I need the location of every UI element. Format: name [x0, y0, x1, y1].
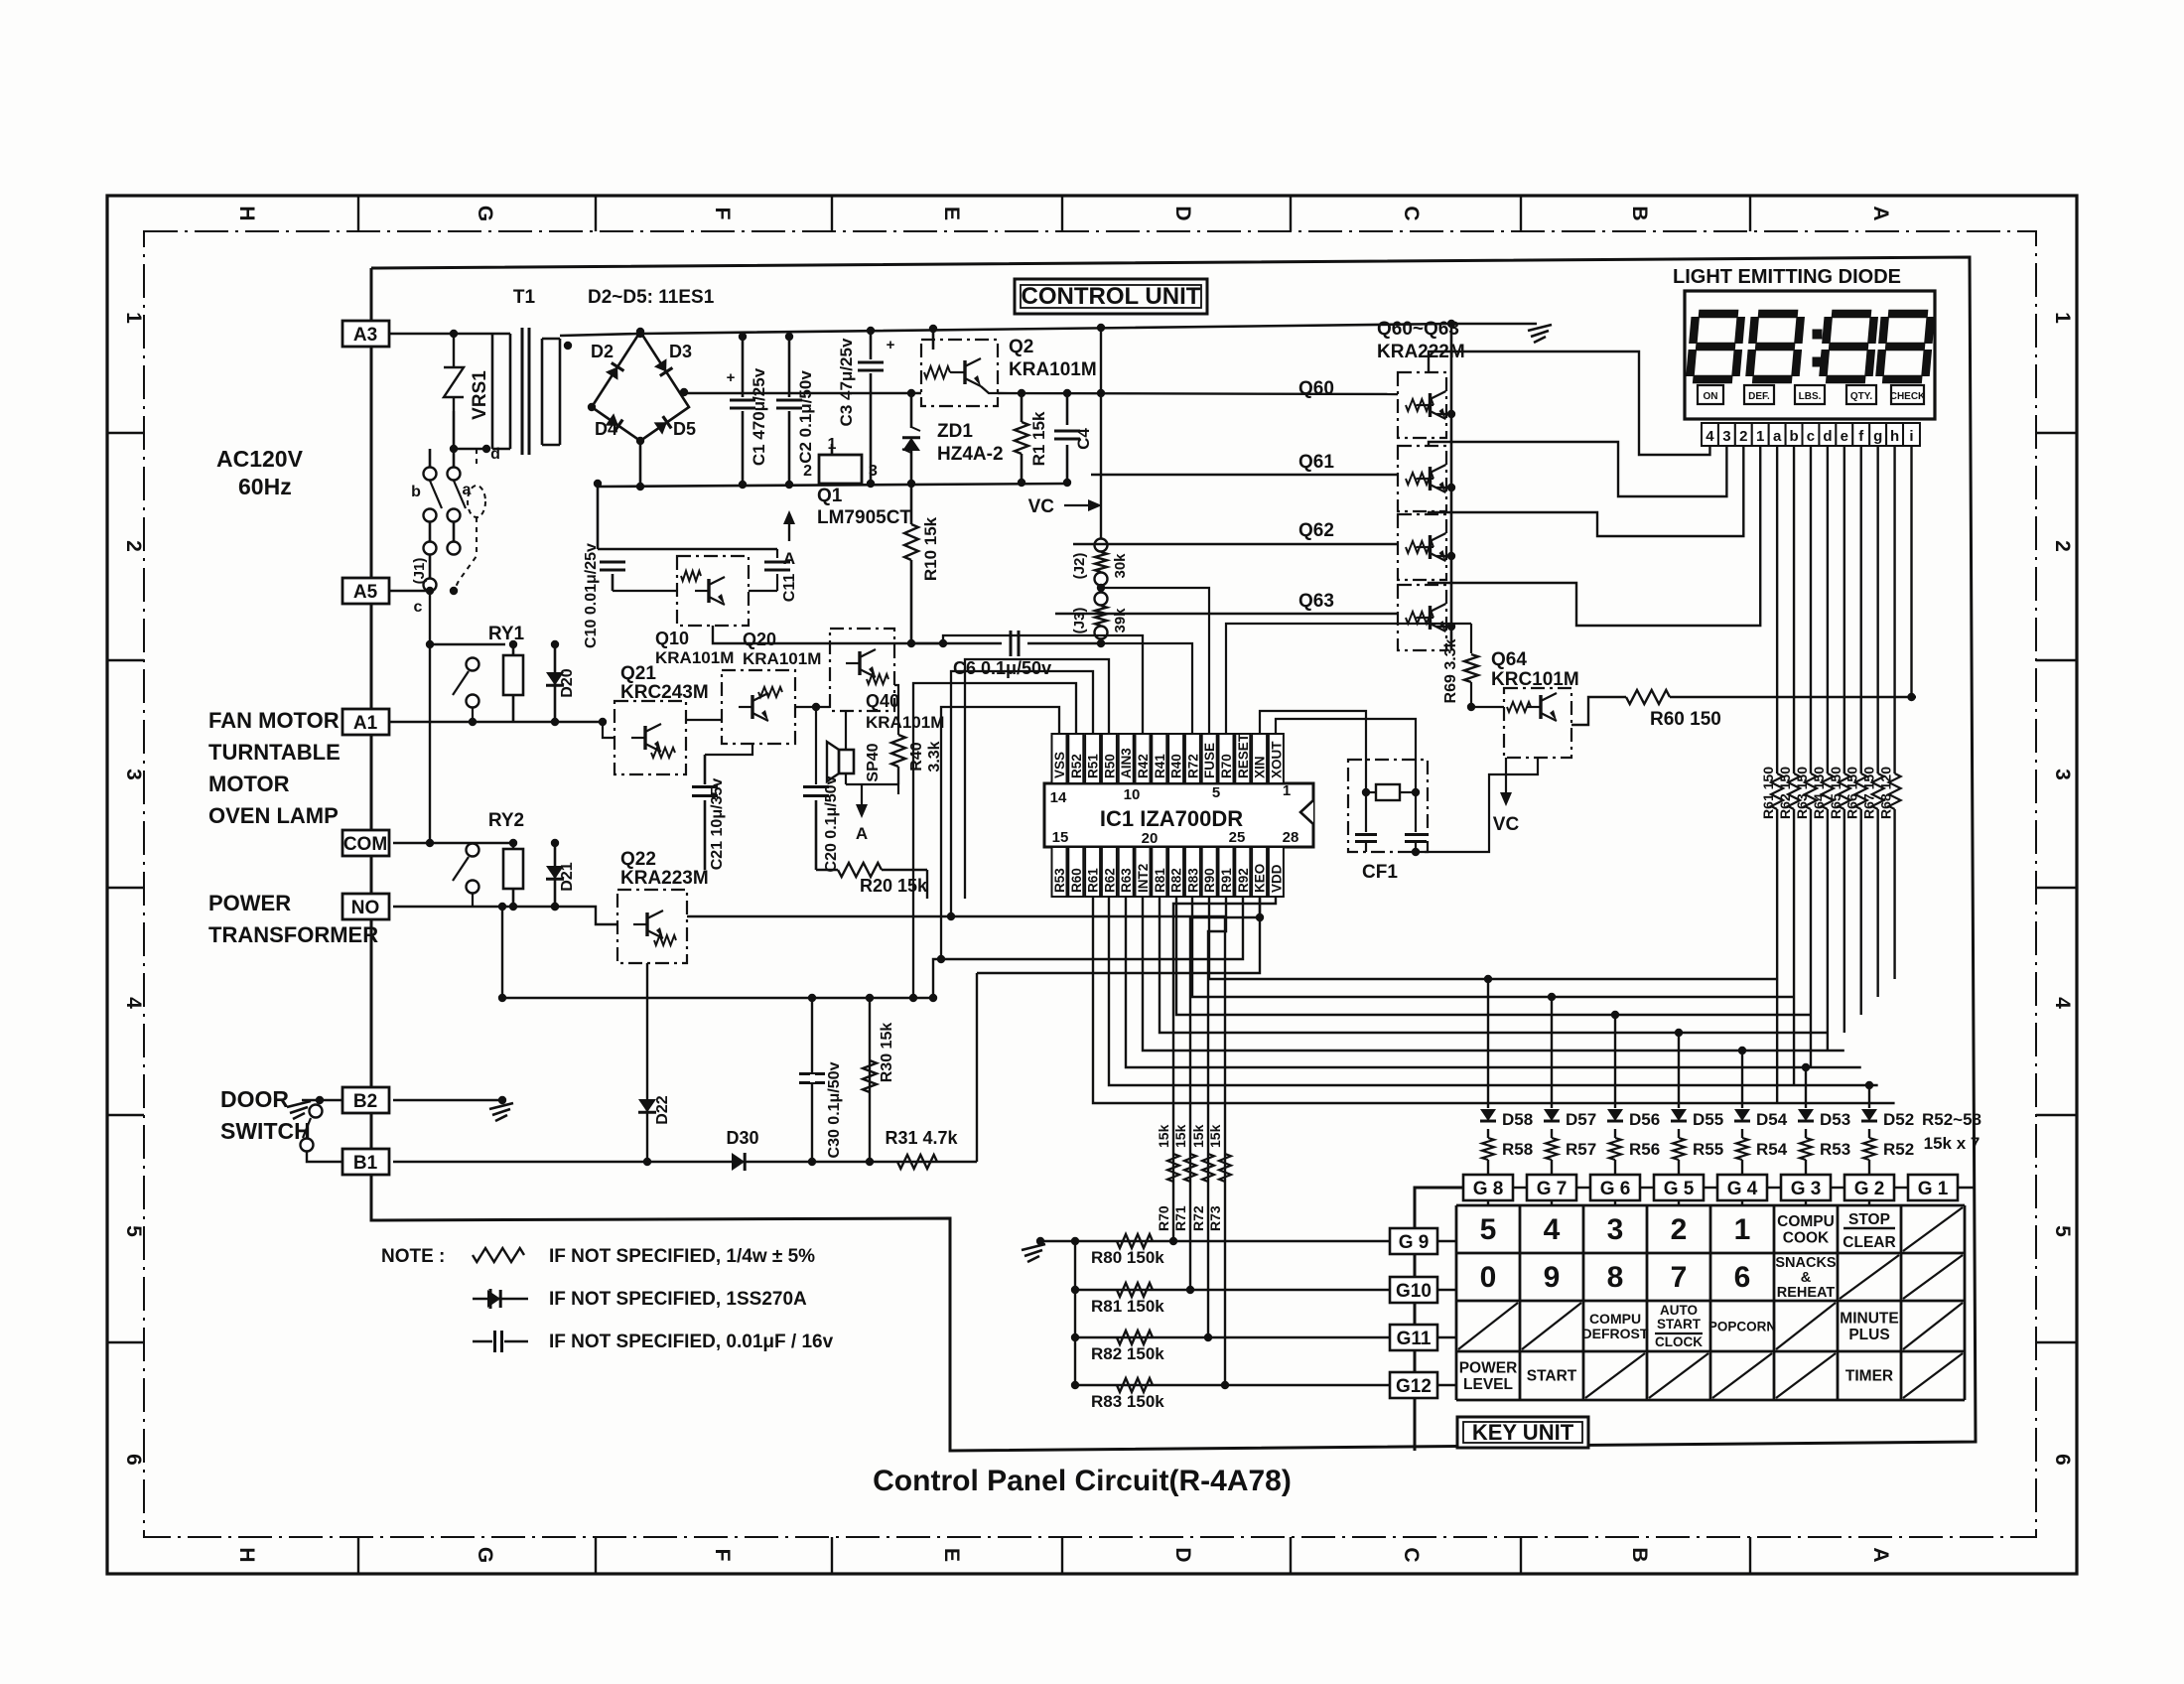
svg-text:15k x 7: 15k x 7: [1924, 1134, 1980, 1153]
svg-text:28: 28: [1283, 829, 1299, 846]
svg-text:c: c: [414, 599, 423, 616]
svg-text:4: 4: [122, 997, 145, 1009]
svg-text:B: B: [1628, 1547, 1651, 1562]
svg-text:G 4: G 4: [1727, 1179, 1758, 1199]
svg-text:R52~58: R52~58: [1922, 1110, 1981, 1129]
svg-text:KEY UNIT: KEY UNIT: [1472, 1420, 1574, 1445]
svg-text:R63 150: R63 150: [1794, 767, 1810, 819]
svg-text:D: D: [1171, 206, 1194, 220]
svg-text:CHECK: CHECK: [1890, 391, 1926, 402]
svg-text:LM7905CT: LM7905CT: [817, 507, 911, 528]
svg-text:25: 25: [1229, 829, 1246, 846]
svg-text:D55: D55: [1693, 1110, 1723, 1129]
svg-text:R70: R70: [1219, 754, 1234, 778]
svg-text:TIMER: TIMER: [1845, 1368, 1893, 1385]
svg-text:D56: D56: [1629, 1110, 1660, 1129]
svg-text:R80 150k: R80 150k: [1091, 1248, 1164, 1267]
svg-text:D5: D5: [673, 419, 696, 439]
svg-text:R40: R40: [908, 742, 925, 771]
svg-text:C: C: [1400, 1547, 1423, 1562]
svg-text:R92: R92: [1236, 868, 1251, 893]
svg-text:R10 15k: R10 15k: [921, 516, 940, 581]
svg-text:G: G: [474, 1547, 496, 1563]
svg-text:A: A: [856, 824, 868, 843]
svg-text:B: B: [1628, 206, 1651, 220]
svg-text:NOTE :: NOTE :: [381, 1246, 445, 1267]
svg-text:R83 150k: R83 150k: [1091, 1392, 1164, 1411]
svg-text:R60 150: R60 150: [1650, 709, 1721, 730]
svg-text:A: A: [783, 549, 795, 568]
svg-text:KRA101M: KRA101M: [743, 649, 821, 668]
svg-text:h: h: [1890, 428, 1899, 445]
svg-text:(J1): (J1): [411, 558, 428, 585]
svg-text:KEO: KEO: [1253, 864, 1268, 893]
svg-text:Q22: Q22: [620, 849, 656, 870]
svg-text:KRA101M: KRA101M: [655, 648, 734, 667]
svg-text:7: 7: [1671, 1261, 1688, 1294]
svg-text:D2: D2: [591, 342, 614, 361]
svg-text:C6 0.1μ/50v: C6 0.1μ/50v: [953, 658, 1051, 678]
svg-text:b: b: [1789, 428, 1798, 445]
svg-text:B1: B1: [353, 1153, 378, 1174]
svg-text:30k: 30k: [1112, 553, 1129, 579]
svg-text:(J2): (J2): [1071, 553, 1088, 580]
svg-text:C4: C4: [1074, 428, 1093, 450]
svg-text:6: 6: [1734, 1261, 1751, 1294]
svg-text:d: d: [490, 446, 500, 463]
svg-text:g: g: [1873, 428, 1882, 445]
svg-text:D54: D54: [1756, 1110, 1788, 1129]
svg-text:D4: D4: [595, 419, 617, 439]
svg-text:R20 15k: R20 15k: [860, 876, 928, 896]
svg-text:VC: VC: [1028, 496, 1055, 517]
svg-text:3: 3: [122, 769, 145, 780]
svg-text:COM: COM: [343, 834, 387, 855]
svg-text:A1: A1: [353, 713, 378, 734]
svg-text:POWER: POWER: [208, 891, 291, 915]
svg-text:b: b: [411, 484, 421, 500]
svg-text:R91: R91: [1219, 868, 1234, 893]
svg-text:a: a: [1773, 428, 1782, 445]
svg-text:0: 0: [1480, 1261, 1497, 1294]
svg-text:14: 14: [1050, 789, 1067, 806]
svg-text:VC: VC: [1493, 814, 1520, 835]
svg-text:D22: D22: [654, 1095, 671, 1124]
svg-text:ON: ON: [1704, 391, 1718, 402]
svg-text:RY2: RY2: [488, 810, 524, 831]
svg-text:R81 150k: R81 150k: [1091, 1297, 1164, 1316]
svg-text:IF NOT SPECIFIED, 0.01μF / 16: IF NOT SPECIFIED, 0.01μF / 16v: [549, 1332, 834, 1352]
svg-text:NO: NO: [351, 898, 380, 918]
svg-text:R83: R83: [1185, 868, 1200, 893]
svg-text:15k: 15k: [1156, 1124, 1171, 1148]
svg-text:39k: 39k: [1112, 608, 1129, 633]
svg-text:VRS1: VRS1: [470, 370, 490, 420]
svg-text:CLOCK: CLOCK: [1655, 1334, 1703, 1349]
svg-text:START: START: [1657, 1317, 1702, 1332]
svg-text:2: 2: [803, 463, 812, 480]
svg-text:1: 1: [1283, 782, 1291, 799]
svg-text:PLUS: PLUS: [1848, 1327, 1889, 1343]
svg-text:5: 5: [1212, 784, 1220, 801]
svg-text:G 1: G 1: [1918, 1179, 1949, 1199]
svg-text:D20: D20: [559, 668, 576, 697]
svg-text:KRC101M: KRC101M: [1491, 669, 1579, 690]
svg-text:15: 15: [1052, 829, 1069, 846]
svg-text:G 7: G 7: [1537, 1179, 1568, 1199]
svg-text:1: 1: [122, 312, 145, 324]
svg-text:HZ4A-2: HZ4A-2: [937, 444, 1004, 465]
svg-text:&: &: [1801, 1270, 1812, 1286]
svg-text:IF NOT SPECIFIED, 1SS270A: IF NOT SPECIFIED, 1SS270A: [549, 1289, 807, 1310]
svg-text:+: +: [727, 369, 736, 386]
svg-text:R31 4.7k: R31 4.7k: [885, 1128, 958, 1148]
svg-text:INT2: INT2: [1136, 864, 1151, 893]
svg-text:C2 0.1μ/50v: C2 0.1μ/50v: [796, 370, 815, 464]
svg-text:3: 3: [869, 463, 878, 480]
svg-text:8: 8: [1607, 1261, 1624, 1294]
svg-text:R81: R81: [1153, 868, 1167, 893]
svg-text:3: 3: [1607, 1213, 1624, 1246]
svg-text:POPCORN: POPCORN: [1708, 1320, 1776, 1334]
svg-text:R64 150: R64 150: [1811, 767, 1827, 819]
svg-text:R70: R70: [1156, 1205, 1171, 1231]
svg-text:LEVEL: LEVEL: [1463, 1376, 1513, 1393]
svg-text:F: F: [711, 208, 734, 220]
svg-text:+: +: [887, 337, 895, 353]
svg-text:XOUT: XOUT: [1269, 741, 1284, 778]
svg-text:1: 1: [2051, 312, 2074, 324]
svg-text:c: c: [1807, 428, 1815, 445]
svg-text:CF1: CF1: [1362, 862, 1398, 883]
svg-text:R72: R72: [1185, 754, 1200, 778]
svg-text:2: 2: [1739, 428, 1747, 445]
svg-text:R63: R63: [1119, 868, 1134, 893]
svg-text:G 2: G 2: [1854, 1179, 1885, 1199]
svg-text:A: A: [1869, 1547, 1892, 1562]
svg-text:R66 150: R66 150: [1844, 767, 1860, 819]
svg-text:COOK: COOK: [1783, 1229, 1830, 1246]
svg-text:RY1: RY1: [488, 624, 525, 644]
svg-text:R41: R41: [1153, 754, 1167, 778]
svg-text:C10 0.01μ/25v: C10 0.01μ/25v: [583, 543, 600, 648]
svg-text:3: 3: [1722, 428, 1730, 445]
svg-text:15k: 15k: [1172, 1124, 1188, 1148]
svg-text:VSS: VSS: [1052, 752, 1067, 778]
svg-text:R56: R56: [1629, 1140, 1660, 1159]
svg-text:i: i: [1909, 428, 1913, 445]
svg-text:RESET: RESET: [1236, 733, 1251, 778]
svg-text:F: F: [711, 1549, 734, 1562]
svg-text:D3: D3: [669, 342, 692, 361]
svg-text:DEFROST: DEFROST: [1582, 1326, 1649, 1341]
svg-text:C20 0.1μ/50v: C20 0.1μ/50v: [823, 775, 840, 872]
svg-text:C11: C11: [781, 574, 798, 603]
svg-text:6: 6: [122, 1454, 145, 1466]
svg-text:REHEAT: REHEAT: [1777, 1285, 1836, 1301]
svg-text:CONTROL UNIT: CONTROL UNIT: [1022, 283, 1201, 310]
svg-text:LIGHT EMITTING DIODE: LIGHT EMITTING DIODE: [1673, 266, 1901, 288]
svg-text:Control Panel Circuit(R-4A78): Control Panel Circuit(R-4A78): [873, 1465, 1292, 1497]
svg-text:Q21: Q21: [620, 663, 656, 684]
svg-text:SP40: SP40: [865, 743, 882, 781]
svg-text:LBS.: LBS.: [1799, 391, 1822, 402]
svg-text:AC120V: AC120V: [216, 446, 304, 472]
svg-text:D30: D30: [726, 1128, 758, 1148]
svg-text:d: d: [1823, 428, 1832, 445]
svg-text:e: e: [1841, 428, 1848, 445]
svg-text:IC1 IZA700DR: IC1 IZA700DR: [1100, 806, 1243, 831]
svg-text:DEF.: DEF.: [1748, 391, 1770, 402]
svg-text:D57: D57: [1566, 1110, 1596, 1129]
svg-text:MOTOR: MOTOR: [208, 772, 290, 796]
svg-text:C1 470μ/25v: C1 470μ/25v: [750, 367, 768, 466]
svg-text:KRC243M: KRC243M: [620, 682, 709, 703]
svg-text:H: H: [235, 206, 258, 220]
svg-text:R62: R62: [1102, 868, 1117, 893]
svg-text:IF NOT SPECIFIED, 1/4w ± 5%: IF NOT SPECIFIED, 1/4w ± 5%: [549, 1246, 815, 1267]
svg-text:G 9: G 9: [1399, 1232, 1430, 1253]
svg-text:1: 1: [1734, 1213, 1751, 1246]
svg-text:R52: R52: [1069, 754, 1084, 778]
svg-text:Q63: Q63: [1298, 591, 1334, 612]
svg-text:Q20: Q20: [743, 630, 776, 649]
svg-text:H: H: [235, 1547, 258, 1562]
svg-text:T1: T1: [513, 287, 536, 308]
svg-text:QTY.: QTY.: [1850, 391, 1872, 402]
svg-text:4: 4: [2051, 997, 2074, 1009]
svg-text:G 3: G 3: [1791, 1179, 1822, 1199]
svg-text:D2~D5: 11ES1: D2~D5: 11ES1: [588, 287, 715, 308]
svg-text:D21: D21: [559, 862, 576, 891]
svg-text:B2: B2: [353, 1091, 377, 1112]
svg-text:Q60: Q60: [1298, 378, 1334, 399]
svg-text:R54: R54: [1756, 1140, 1788, 1159]
svg-text:D53: D53: [1820, 1110, 1850, 1129]
svg-text:G11: G11: [1397, 1329, 1432, 1349]
svg-text:2: 2: [122, 540, 145, 552]
svg-text:4: 4: [1544, 1213, 1561, 1246]
svg-text:a: a: [463, 482, 472, 498]
svg-text:AIN3: AIN3: [1119, 748, 1134, 778]
svg-text:R71: R71: [1172, 1205, 1188, 1231]
svg-text:SNACKS: SNACKS: [1775, 1255, 1837, 1271]
svg-text:C30 0.1μ/50v: C30 0.1μ/50v: [826, 1061, 843, 1158]
svg-text:OVEN LAMP: OVEN LAMP: [208, 803, 339, 828]
svg-text:15k: 15k: [1207, 1124, 1223, 1148]
svg-text:R51: R51: [1086, 754, 1101, 778]
svg-text:2: 2: [2051, 540, 2074, 552]
svg-text:TURNTABLE: TURNTABLE: [208, 740, 341, 765]
svg-text:C21 10μ/35v: C21 10μ/35v: [709, 778, 726, 871]
svg-text:COMPU: COMPU: [1589, 1311, 1641, 1327]
svg-text:Q10: Q10: [655, 629, 689, 648]
svg-text:R61 150: R61 150: [1760, 767, 1776, 819]
svg-text:Q60~Q63: Q60~Q63: [1377, 319, 1459, 340]
svg-text:D: D: [1171, 1547, 1194, 1562]
svg-text:AUTO: AUTO: [1660, 1303, 1698, 1318]
svg-text:G12: G12: [1396, 1376, 1432, 1397]
svg-text:R61: R61: [1086, 868, 1101, 893]
svg-text:5: 5: [2051, 1225, 2074, 1237]
svg-text:C: C: [1400, 206, 1423, 220]
svg-text:D58: D58: [1502, 1110, 1533, 1129]
svg-text:G: G: [474, 206, 496, 221]
svg-text:Q61: Q61: [1298, 452, 1334, 473]
svg-text:TRANSFORMER: TRANSFORMER: [208, 922, 378, 947]
svg-text:R1 15k: R1 15k: [1029, 411, 1048, 466]
svg-text:R30 15k: R30 15k: [879, 1023, 895, 1083]
svg-text:FAN MOTOR: FAN MOTOR: [208, 708, 340, 733]
svg-text:3: 3: [2051, 769, 2074, 780]
svg-text:Q2: Q2: [1009, 337, 1033, 357]
svg-text:R82: R82: [1169, 868, 1184, 893]
svg-text:Q40: Q40: [866, 691, 899, 711]
svg-text:R67 150: R67 150: [1861, 767, 1877, 819]
svg-text:9: 9: [1544, 1261, 1561, 1294]
svg-text:DOOR: DOOR: [220, 1086, 289, 1112]
svg-text:60Hz: 60Hz: [238, 474, 292, 499]
svg-text:R72: R72: [1190, 1205, 1206, 1231]
svg-text:A3: A3: [353, 325, 377, 346]
svg-text:20: 20: [1142, 830, 1159, 847]
svg-text:A5: A5: [353, 582, 378, 603]
svg-text:R53: R53: [1052, 868, 1067, 893]
svg-text:6: 6: [2051, 1454, 2074, 1466]
svg-text:Q62: Q62: [1298, 520, 1334, 541]
svg-text:G10: G10: [1396, 1281, 1432, 1302]
svg-text:G 8: G 8: [1473, 1179, 1504, 1199]
svg-text:KRA101M: KRA101M: [1009, 359, 1097, 380]
svg-text:R90: R90: [1202, 868, 1217, 893]
svg-text:1: 1: [1756, 428, 1764, 445]
svg-text:G 6: G 6: [1600, 1179, 1631, 1199]
svg-text:D52: D52: [1883, 1110, 1914, 1129]
svg-text:G 5: G 5: [1664, 1179, 1695, 1199]
svg-text:R65 150: R65 150: [1828, 767, 1843, 819]
svg-text:Q64: Q64: [1491, 649, 1527, 670]
svg-text:(J3): (J3): [1071, 608, 1088, 634]
svg-text:E: E: [940, 1548, 963, 1562]
svg-text:STOP: STOP: [1848, 1211, 1890, 1228]
svg-text:SWITCH: SWITCH: [220, 1118, 311, 1144]
svg-text:R53: R53: [1820, 1140, 1850, 1159]
svg-text:COMPU: COMPU: [1777, 1213, 1835, 1230]
svg-text:R73: R73: [1207, 1205, 1223, 1231]
svg-text:R42: R42: [1136, 754, 1151, 778]
svg-text:R58: R58: [1502, 1140, 1533, 1159]
svg-text:5: 5: [122, 1225, 145, 1237]
svg-text:POWER: POWER: [1459, 1359, 1518, 1376]
svg-text:FUSE: FUSE: [1202, 743, 1217, 778]
svg-text:R68 120: R68 120: [1878, 767, 1894, 819]
svg-text:XIN: XIN: [1253, 756, 1268, 778]
svg-text:R50: R50: [1102, 754, 1117, 778]
svg-text:15k: 15k: [1190, 1124, 1206, 1148]
svg-text:C3 47μ/25v: C3 47μ/25v: [837, 338, 856, 426]
svg-text:R52: R52: [1883, 1140, 1914, 1159]
svg-text:VDD: VDD: [1269, 864, 1284, 893]
svg-text:KRA101M: KRA101M: [866, 713, 944, 732]
svg-text:R57: R57: [1566, 1140, 1596, 1159]
svg-text:5: 5: [1480, 1213, 1497, 1246]
svg-text:KRA223M: KRA223M: [620, 868, 709, 889]
svg-text:A: A: [1869, 206, 1892, 220]
svg-text:4: 4: [1706, 428, 1714, 445]
svg-text:R82 150k: R82 150k: [1091, 1344, 1164, 1363]
svg-text:E: E: [940, 207, 963, 220]
svg-text:Q1: Q1: [817, 486, 843, 506]
svg-text:START: START: [1527, 1368, 1577, 1385]
svg-text:R62 150: R62 150: [1777, 767, 1793, 819]
svg-text:2: 2: [1671, 1213, 1688, 1246]
svg-text:MINUTE: MINUTE: [1840, 1310, 1898, 1327]
svg-text:R55: R55: [1693, 1140, 1723, 1159]
svg-text:10: 10: [1124, 786, 1141, 803]
svg-text:R40: R40: [1169, 754, 1184, 778]
svg-text:CLEAR: CLEAR: [1843, 1234, 1895, 1251]
svg-text:ZD1: ZD1: [937, 421, 973, 442]
svg-text:R60: R60: [1069, 868, 1084, 893]
